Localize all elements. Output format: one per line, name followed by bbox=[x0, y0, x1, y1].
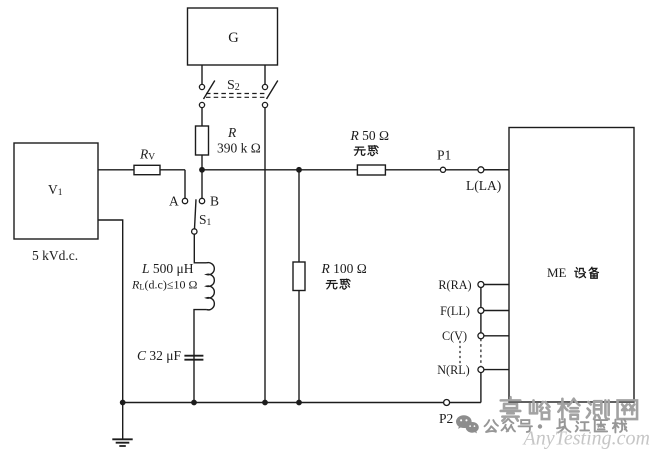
svg-text:P2: P2 bbox=[439, 411, 453, 426]
svg-text:L(LA): L(LA) bbox=[466, 178, 501, 193]
svg-text:R(RA): R(RA) bbox=[438, 278, 471, 292]
svg-text:P1: P1 bbox=[437, 148, 451, 163]
svg-text:L 500 μH: L 500 μH bbox=[141, 261, 194, 276]
svg-text:N(RL): N(RL) bbox=[437, 363, 470, 377]
svg-text:C(V): C(V) bbox=[442, 329, 467, 343]
svg-text:A: A bbox=[169, 194, 179, 209]
svg-text:R 50 Ω: R 50 Ω bbox=[350, 128, 390, 143]
svg-text:C 32 μF: C 32 μF bbox=[137, 348, 182, 363]
svg-text:B: B bbox=[210, 194, 219, 209]
svg-text:G: G bbox=[228, 30, 239, 46]
svg-text:5 kVd.c.: 5 kVd.c. bbox=[32, 248, 78, 263]
svg-text:AnyTesting.com: AnyTesting.com bbox=[522, 428, 650, 450]
svg-text:F(LL): F(LL) bbox=[440, 304, 470, 318]
svg-text:R: R bbox=[227, 125, 237, 140]
svg-text:R 100 Ω: R 100 Ω bbox=[321, 261, 367, 276]
svg-text:390 k Ω: 390 k Ω bbox=[217, 141, 261, 156]
svg-text:ME: ME bbox=[547, 265, 567, 280]
